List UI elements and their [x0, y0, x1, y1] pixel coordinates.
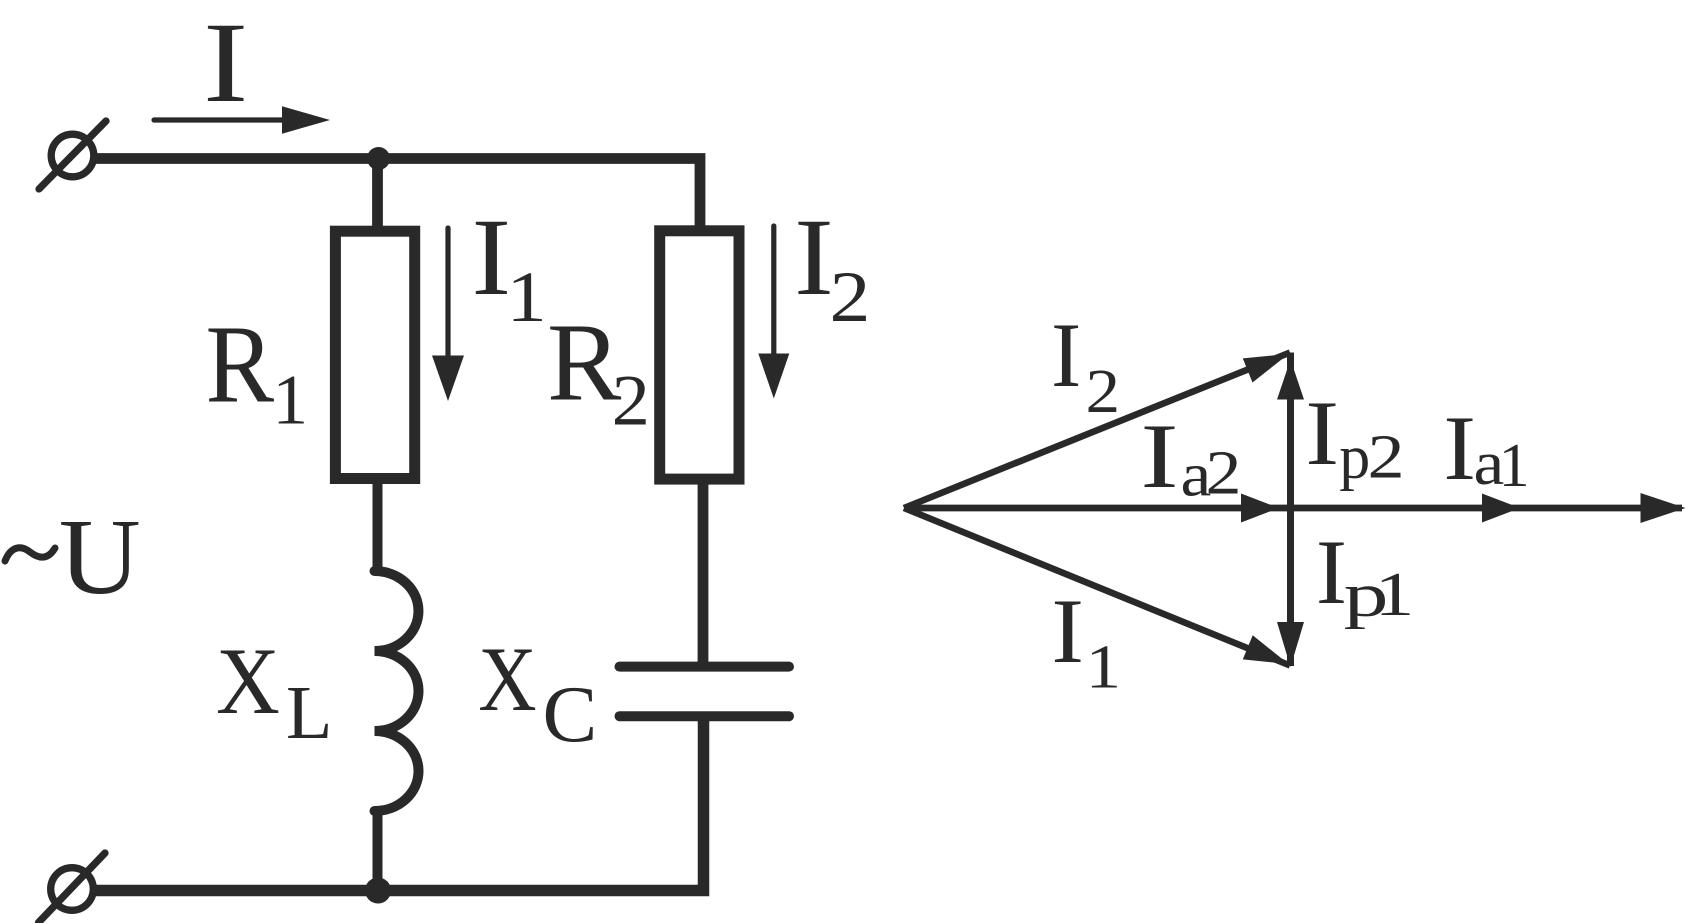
- svg-text:2: 2: [1206, 440, 1242, 508]
- svg-text:p: p: [1339, 424, 1370, 492]
- svg-text:R: R: [547, 302, 621, 425]
- svg-text:L: L: [286, 671, 332, 755]
- svg-text:I: I: [1305, 382, 1339, 484]
- svg-text:1: 1: [1086, 634, 1121, 702]
- svg-text:2: 2: [1368, 424, 1405, 492]
- svg-text:U: U: [59, 498, 141, 617]
- svg-text:I: I: [1443, 397, 1476, 499]
- svg-text:I: I: [203, 0, 248, 126]
- svg-text:2: 2: [830, 257, 871, 337]
- svg-text:X: X: [216, 628, 280, 734]
- svg-text:I: I: [472, 196, 512, 318]
- svg-text:I: I: [1140, 405, 1178, 507]
- svg-text:1: 1: [1375, 561, 1415, 629]
- svg-text:1: 1: [1499, 432, 1530, 500]
- svg-text:I: I: [1051, 580, 1084, 682]
- svg-text:1: 1: [507, 257, 547, 337]
- svg-text:C: C: [543, 671, 598, 759]
- svg-text:X: X: [478, 628, 536, 730]
- svg-text:2: 2: [612, 360, 650, 440]
- svg-text:I: I: [1316, 521, 1347, 623]
- svg-text:I: I: [1051, 304, 1081, 406]
- svg-text:R: R: [206, 303, 275, 426]
- svg-text:2: 2: [1086, 358, 1121, 426]
- svg-text:I: I: [794, 196, 834, 318]
- svg-text:1: 1: [273, 362, 309, 440]
